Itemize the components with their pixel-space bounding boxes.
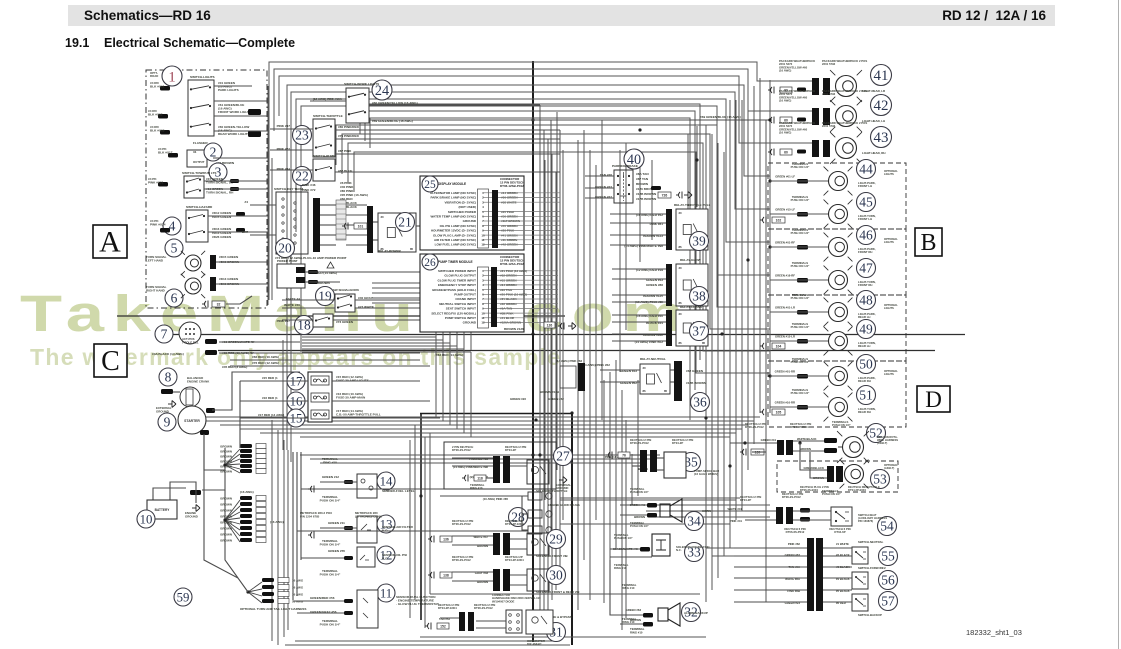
junction beacon feed	[743, 441, 746, 444]
svg-text:41: 41	[874, 68, 889, 84]
connector 726 inline	[658, 192, 692, 199]
connector id 152	[437, 623, 449, 629]
svg-text:#4A BLACK (14 AWG): #4A BLACK (14 AWG)	[152, 352, 184, 356]
wires power point	[305, 272, 420, 282]
svg-text:FRONT LH: FRONT LH	[858, 184, 872, 188]
terminal parking brake	[651, 186, 661, 190]
terminal front work	[248, 109, 261, 115]
dashed optional lights box 4	[768, 361, 906, 427]
labels bottom of trunk	[630, 627, 645, 634]
component callout 13	[377, 515, 395, 533]
svg-text:DT06-2S-P012: DT06-2S-P012	[474, 606, 493, 610]
module 25 display	[420, 176, 525, 250]
wires seat switch	[745, 511, 831, 520]
lamp light 45	[824, 200, 853, 229]
svg-text:BROWN: BROWN	[800, 447, 811, 451]
svg-text:#17 RED (14 AWG): #17 RED (14 AWG)	[258, 413, 284, 417]
svg-text:DT04-2P: DT04-2P	[672, 441, 683, 445]
relay 36 upper connector detail	[560, 363, 585, 391]
svg-text:30: 30	[549, 568, 563, 583]
inline connector pump spray	[606, 452, 612, 459]
fuse F15 circuit breaker	[311, 410, 329, 419]
svg-text:GREEN #62: GREEN #62	[548, 397, 564, 401]
svg-text:38: 38	[692, 289, 706, 304]
svg-text:RELAY-GLOW: RELAY-GLOW	[680, 258, 701, 262]
wires S22	[270, 170, 560, 172]
component callout 44	[857, 160, 876, 179]
svg-text:DT04-2P-E004: DT04-2P-E004	[848, 488, 866, 492]
pump spray labels	[605, 438, 719, 476]
svg-text:WHITE/BLACK: WHITE/BLACK	[797, 437, 817, 441]
wire light 51	[770, 406, 828, 408]
labels parking brake left	[595, 173, 612, 199]
svg-text:RIGHT HAND: RIGHT HAND	[146, 289, 166, 293]
wire headlight 43	[770, 142, 812, 144]
solenoid fuel body	[652, 534, 670, 556]
svg-text:RELAY-POWER: RELAY-POWER	[378, 249, 402, 253]
wire fan battery loom A	[225, 449, 240, 473]
connector bar beacon a	[777, 440, 784, 455]
svg-text:ENGINE GLOW PLUGS: ENGINE GLOW PLUGS	[548, 503, 580, 507]
svg-text:46: 46	[859, 228, 873, 243]
inline connector 101	[342, 223, 348, 230]
svg-text:SWITCH-THROTTLE: SWITCH-THROTTLE	[313, 114, 343, 118]
wire left verticals lower	[272, 420, 288, 645]
wires optional beacon	[800, 443, 827, 478]
svg-text:(10 AWG) PINK #85: (10 AWG) PINK #85	[483, 497, 509, 501]
headlight circuit 42 labels	[779, 89, 867, 103]
connector bar key switch	[313, 198, 320, 252]
svg-text:FRONT LH: FRONT LH	[858, 217, 872, 221]
svg-text:SWITCH-BACKUP: SWITCH-BACKUP	[858, 613, 882, 617]
switch S19 signal/horn	[335, 294, 355, 312]
light circuit 45 labels	[775, 195, 810, 212]
svg-text:GREEN #16-RF: GREEN #16-RF	[775, 274, 795, 278]
terminal beacon b	[824, 448, 837, 453]
wires parking brake	[585, 176, 614, 198]
svg-text:PUSH ON 1/4": PUSH ON 1/4"	[320, 623, 341, 627]
svg-text:HOURMETER 12VDC (D- SYNC): HOURMETER 12VDC (D- SYNC)	[431, 229, 476, 233]
svg-text:GREEN #15-LF: GREEN #15-LF	[775, 208, 795, 212]
connector bar beacon2 a	[827, 466, 834, 482]
svg-text:PUSH ON 1/4": PUSH ON 1/4"	[614, 536, 633, 540]
wire harness exit	[226, 296, 252, 304]
svg-text:C: C	[101, 346, 120, 377]
svg-text:GROUND: GROUND	[463, 219, 477, 223]
wires handshake	[440, 618, 506, 628]
terminal J7 b	[205, 350, 217, 355]
terminal horn b	[647, 513, 657, 518]
wires S23	[270, 129, 560, 154]
svg-text:PUSH ON 1/4": PUSH ON 1/4"	[791, 165, 810, 169]
connector id 118	[474, 475, 486, 481]
svg-text:PARK LIGHTS: PARK LIGHTS	[218, 88, 239, 92]
svg-text:HORN: HORN	[702, 509, 711, 513]
svg-text:23: 23	[295, 128, 309, 143]
wire verticals below staircase	[436, 337, 471, 437]
svg-text:16 AWG: 16 AWG	[292, 578, 304, 582]
component callout 40	[624, 149, 644, 169]
svg-text:(16 AWG): (16 AWG)	[779, 99, 791, 103]
svg-text:BLK #X02: BLK #X02	[148, 113, 163, 117]
sensor fuel level body	[357, 474, 377, 498]
svg-text:SWITCHED POWER INPUT: SWITCHED POWER INPUT	[438, 269, 476, 273]
wire right mid horizontals	[560, 498, 770, 556]
module 26 pump timer	[420, 254, 525, 332]
wire loop group top to park lights	[287, 85, 770, 462]
svg-text:101: 101	[358, 225, 364, 229]
wire light 45	[770, 213, 828, 215]
svg-text:BROWN: BROWN	[220, 539, 232, 543]
svg-text:WHITE #41: WHITE #41	[728, 507, 743, 511]
svg-text:GREEN #01-LR: GREEN #01-LR	[775, 306, 795, 310]
svg-text:WHITE #46: WHITE #46	[284, 303, 300, 307]
svg-text:LOW FUEL LAMP (NO SYNC): LOW FUEL LAMP (NO SYNC)	[435, 243, 476, 247]
component callout 59	[174, 588, 192, 606]
svg-text:GREEN #55: GREEN #55	[328, 549, 345, 553]
junction beacon a	[798, 441, 801, 444]
svg-text:PUSH ON 1/4": PUSH ON 1/4"	[791, 360, 810, 364]
svg-text:BLK #X17: BLK #X17	[158, 151, 173, 155]
svg-text:#12B BROWN: #12B BROWN	[686, 381, 707, 385]
component callout 39	[690, 232, 709, 251]
svg-text:57: 57	[881, 594, 895, 609]
connector bar handshake b	[468, 612, 474, 631]
svg-text:DT04-2P-E004: DT04-2P-E004	[438, 606, 457, 610]
connector id 104	[772, 343, 785, 349]
module engine crank	[180, 387, 200, 407]
lamp light 48	[824, 298, 853, 327]
component callout 22	[293, 167, 312, 186]
component callout 7	[155, 325, 173, 343]
svg-text:#73 GREEN: #73 GREEN	[336, 320, 354, 324]
wire nested loops center	[336, 125, 770, 373]
component callout 21	[396, 213, 415, 232]
connector bar pump a	[640, 450, 647, 472]
terminal headlight 41	[797, 88, 806, 92]
headlight circuit 43 labels	[779, 121, 867, 135]
inline connector headlight 41	[768, 87, 774, 94]
svg-text:ROAD: ROAD	[150, 74, 158, 78]
wire crank	[173, 391, 180, 393]
svg-text:726: 726	[662, 194, 668, 198]
connector bar beacon2 b	[836, 466, 843, 482]
svg-text:(ATTACHED) CONN: (ATTACHED) CONN	[355, 515, 382, 519]
terminal seat a	[800, 508, 810, 513]
wire heavy left vertical of lower frame	[420, 413, 422, 620]
inline connector handshake	[425, 623, 431, 630]
svg-text:SWITCH-TOW/RUN LTS: SWITCH-TOW/RUN LTS	[182, 171, 216, 175]
fuse block body	[308, 372, 332, 422]
svg-text:(ADJLT): (ADJLT)	[884, 466, 894, 470]
connector bar solenoid 29 a	[493, 533, 500, 555]
svg-text:BROWN: BROWN	[634, 515, 645, 519]
terminal light 49	[797, 339, 808, 344]
wires horn	[620, 505, 647, 515]
svg-text:85: 85	[410, 247, 414, 251]
svg-text:SWITCH-WORK LIGHTS: SWITCH-WORK LIGHTS	[344, 82, 379, 86]
sensor dual function body	[357, 590, 378, 628]
svg-text:DT06-12SB-P012: DT06-12SB-P012	[500, 184, 524, 188]
power point pin b	[296, 277, 305, 283]
svg-text:PUSH ON 1/4": PUSH ON 1/4"	[791, 231, 810, 235]
component callout 9	[158, 413, 176, 431]
svg-text:BAT: BAT	[242, 230, 248, 234]
terminal seat b	[800, 517, 810, 522]
wire stubs switch S1 left	[158, 86, 170, 135]
svg-text:(16 AWG): (16 AWG)	[779, 131, 791, 135]
connector bar direction a	[807, 538, 814, 611]
svg-text:LIGHTS: LIGHTS	[884, 172, 894, 176]
inline connector headlight 42	[768, 117, 774, 124]
component callout 11	[377, 584, 395, 602]
svg-text:(14 AWG) PINK #62: (14 AWG) PINK #62	[582, 363, 610, 367]
svg-text:REAR WORK LIGHTS: REAR WORK LIGHTS	[218, 132, 250, 136]
svg-text:BRAKE/BYPASS (HOLD FUEL): BRAKE/BYPASS (HOLD FUEL)	[432, 288, 476, 292]
svg-text:SEAT SWITCH INPUT: SEAT SWITCH INPUT	[446, 307, 476, 311]
component callout 41	[871, 65, 892, 86]
solenoid body 29	[527, 533, 549, 555]
svg-text:P/N 160876): P/N 160876)	[858, 519, 873, 523]
terminal headlight 43	[797, 150, 806, 154]
svg-text:#8A TAN: #8A TAN	[636, 172, 649, 176]
svg-text:P/N 1204 6785: P/N 1204 6785	[300, 515, 320, 519]
lamp light 44	[824, 167, 853, 196]
wire long horizontal bus left	[117, 315, 565, 317]
svg-text:PINK #X24: PINK #X24	[150, 223, 166, 227]
solenoid throttle body	[527, 460, 549, 484]
wires glow plugs	[440, 496, 528, 530]
switch S23 throttle	[313, 119, 335, 157]
connector bar sol throttle b	[503, 456, 510, 483]
solenoid fuel labels	[613, 533, 638, 551]
horn symbol	[660, 499, 682, 522]
wire turn right	[216, 283, 268, 285]
terminal light 50	[797, 374, 808, 379]
ground external 1	[168, 401, 176, 408]
connector id 101	[354, 223, 367, 229]
svg-text:(12 AWG) RED #10A: (12 AWG) RED #10A	[313, 97, 343, 101]
lamp turn signal left	[181, 251, 205, 275]
light circuit 47 labels	[775, 261, 810, 278]
svg-text:30: 30	[679, 211, 683, 215]
connector id 139	[751, 449, 764, 455]
wires air filter	[297, 528, 528, 539]
svg-text:SWITCH-NEUTRAL: SWITCH-NEUTRAL	[858, 540, 884, 544]
svg-text:PUSH ON 1/4": PUSH ON 1/4"	[320, 499, 341, 503]
svg-text:BROWN: BROWN	[220, 445, 232, 449]
wire extra center loops	[360, 104, 700, 420]
svg-text:BROWN #126: BROWN #126	[504, 327, 524, 331]
svg-text:#D26 GREEN: #D26 GREEN	[212, 235, 232, 239]
svg-text:OUTPUT: OUTPUT	[193, 160, 205, 164]
svg-text:RING #10: RING #10	[323, 461, 337, 465]
svg-text:C.B.-50 AMP-THROTTLE PULL: C.B.-50 AMP-THROTTLE PULL	[336, 413, 381, 417]
wires solenoid 30	[452, 572, 527, 585]
svg-text:GREEN #41: GREEN #41	[761, 438, 777, 442]
component callout 6	[165, 289, 183, 307]
svg-text:138: 138	[443, 574, 449, 578]
wires relay 36	[600, 370, 674, 382]
component callout 58	[277, 267, 295, 285]
wires dual sensor	[293, 601, 344, 627]
svg-text:PUSH ON 1/4": PUSH ON 1/4"	[320, 573, 341, 577]
component callout 23	[293, 126, 312, 145]
dashed optional lights box 1	[768, 163, 906, 229]
svg-text:DISPLAY MODULE: DISPLAY MODULE	[438, 182, 466, 186]
component callout 1	[162, 66, 182, 86]
connector bar relay 36	[674, 361, 682, 401]
svg-text:GREEN #01-RF: GREEN #01-RF	[775, 241, 795, 245]
svg-text:GREEN/BLACK: GREEN/BLACK	[803, 466, 824, 470]
terminal J7 a	[205, 339, 217, 344]
labels S3 outputs	[206, 177, 234, 194]
svg-text:STARTER: STARTER	[184, 419, 200, 423]
component callout 3	[209, 163, 227, 181]
terminal starter a	[200, 430, 209, 435]
svg-text:126: 126	[547, 324, 553, 328]
svg-text:BLK #X05: BLK #X05	[150, 129, 165, 133]
wires beacon	[730, 441, 842, 452]
dashed harness boundary left	[146, 70, 267, 308]
svg-text:FLASHER: FLASHER	[193, 141, 208, 145]
svg-text:DT04-2P: DT04-2P	[740, 498, 751, 502]
svg-text:BROWN: BROWN	[220, 455, 232, 459]
lamp light 46	[824, 233, 853, 262]
component callout 29	[547, 530, 566, 549]
svg-text:36: 36	[693, 395, 707, 410]
svg-text:59: 59	[177, 590, 190, 604]
relay K37 crank	[676, 310, 708, 346]
svg-text:BROWN: BROWN	[220, 515, 232, 519]
component callout 38	[690, 287, 709, 306]
svg-text:FUSE-30 AMP-MAIN: FUSE-30 AMP-MAIN	[336, 396, 366, 400]
component callout 4	[163, 217, 181, 235]
terminal alarm b	[643, 622, 653, 627]
wire light 50	[770, 375, 828, 377]
svg-text:9: 9	[164, 415, 171, 430]
light circuit 50 labels	[775, 357, 810, 374]
connector bar relay 38	[666, 264, 672, 306]
connector bar relay 39	[666, 209, 672, 250]
svg-text:136: 136	[443, 538, 449, 542]
terminal beacon a	[824, 438, 837, 443]
battery B1	[147, 495, 177, 519]
labels relay 36	[582, 363, 707, 385]
wires S4 outputs	[208, 216, 268, 232]
switch neutral	[852, 547, 868, 564]
connector bar seat b	[786, 507, 793, 524]
inline connectors left of light rows	[760, 217, 766, 416]
svg-text:BROWN: BROWN	[636, 182, 649, 186]
connector bar module 25	[492, 190, 498, 248]
component callout 17	[287, 372, 305, 390]
sensor group vertical feeders	[293, 452, 301, 600]
wires solenoid 29	[452, 536, 527, 549]
svg-text:DT06-12SA-P012: DT06-12SA-P012	[500, 262, 524, 266]
svg-text:GREEN #16-RR: GREEN #16-RR	[775, 401, 795, 405]
svg-text:(ADJLT): (ADJLT)	[877, 441, 887, 445]
handshake connector labels	[438, 593, 572, 646]
wire horizontal bundle mid page	[180, 417, 760, 437]
svg-text:N.C.: N.C.	[382, 557, 388, 561]
wire fan optional harness 59	[248, 582, 262, 603]
glow plug labels	[470, 483, 571, 501]
wires fuse block	[240, 381, 440, 448]
svg-text:10: 10	[140, 512, 153, 526]
switch S3 tow/run lights	[184, 176, 204, 198]
component callout 45	[857, 193, 876, 212]
labels relay 37	[635, 314, 664, 344]
svg-text:GREEN #15-LR: GREEN #15-LR	[775, 335, 795, 339]
svg-text:#15 RED (1: #15 RED (1	[262, 376, 278, 380]
light circuit 51 labels	[775, 388, 810, 405]
wire turn left	[216, 261, 268, 263]
switch seat	[831, 507, 852, 526]
solenoid throttle labels	[452, 445, 568, 493]
svg-text:FRONT WORK LIGHTS: FRONT WORK LIGHTS	[218, 110, 252, 114]
terminal dual b	[344, 611, 353, 615]
svg-text:BROWN: BROWN	[220, 527, 232, 531]
fuse F17	[311, 376, 329, 385]
dashed optional lights box 2	[768, 229, 906, 295]
wire fan battery loom B	[225, 500, 240, 542]
connector strip key switch	[336, 200, 346, 240]
terminal light 44	[797, 179, 808, 184]
svg-text:RING #10: RING #10	[470, 486, 483, 490]
terminal dual a	[344, 599, 353, 603]
seat switch labels	[728, 489, 842, 523]
wires relay power	[373, 222, 420, 240]
wire headlight 42	[770, 110, 812, 112]
alarm backup symbol	[658, 603, 680, 626]
svg-text:86: 86	[679, 341, 683, 345]
svg-text:#62 GREEN: #62 GREEN	[686, 369, 704, 373]
svg-text:PINK #72: PINK #72	[302, 188, 316, 192]
relay K38 glow	[676, 264, 708, 306]
wire light 48	[770, 311, 828, 313]
component callout 49	[857, 320, 876, 339]
svg-text:#74 RED (12 AWG)-PLUG-10 AMP P: #74 RED (12 AWG)-PLUG-10 AMP POWER POINT	[275, 256, 347, 260]
terminal light 48	[797, 310, 808, 315]
terminal S4 b	[236, 228, 245, 232]
labels S4 outputs	[212, 211, 232, 239]
component callout 28	[509, 508, 528, 527]
svg-text:2201 5792: 2201 5792	[822, 92, 836, 96]
wire vertical trunk group right	[706, 78, 760, 602]
terminal power point 2	[308, 280, 318, 284]
svg-text:REAR RH: REAR RH	[858, 410, 871, 414]
svg-text:47: 47	[859, 261, 873, 276]
svg-text:#87 TAN: #87 TAN	[636, 177, 649, 181]
svg-text:GREEN #23: GREEN #23	[510, 397, 526, 401]
svg-text:EMERGENCY STOP INPUT: EMERGENCY STOP INPUT	[438, 283, 476, 287]
light circuit 44 labels	[775, 162, 810, 179]
svg-text:DT06-2S-P012: DT06-2S-P012	[782, 495, 801, 499]
svg-text:30: 30	[381, 215, 385, 219]
component callout 18	[295, 316, 314, 335]
lamp head light 42	[830, 100, 862, 132]
svg-text:DT04-2P: DT04-2P	[505, 448, 516, 452]
svg-text:DT06-2S-P012: DT06-2S-P012	[452, 558, 471, 562]
labels parking brake right	[636, 172, 657, 201]
svg-text:FRONT RH: FRONT RH	[858, 283, 872, 287]
svg-text:GROUND: GROUND	[463, 321, 477, 325]
component callout 55	[879, 547, 898, 566]
svg-text:56: 56	[881, 573, 895, 588]
wires battery	[153, 448, 238, 578]
svg-text:PUSH ON 1/4": PUSH ON 1/4"	[791, 198, 810, 202]
